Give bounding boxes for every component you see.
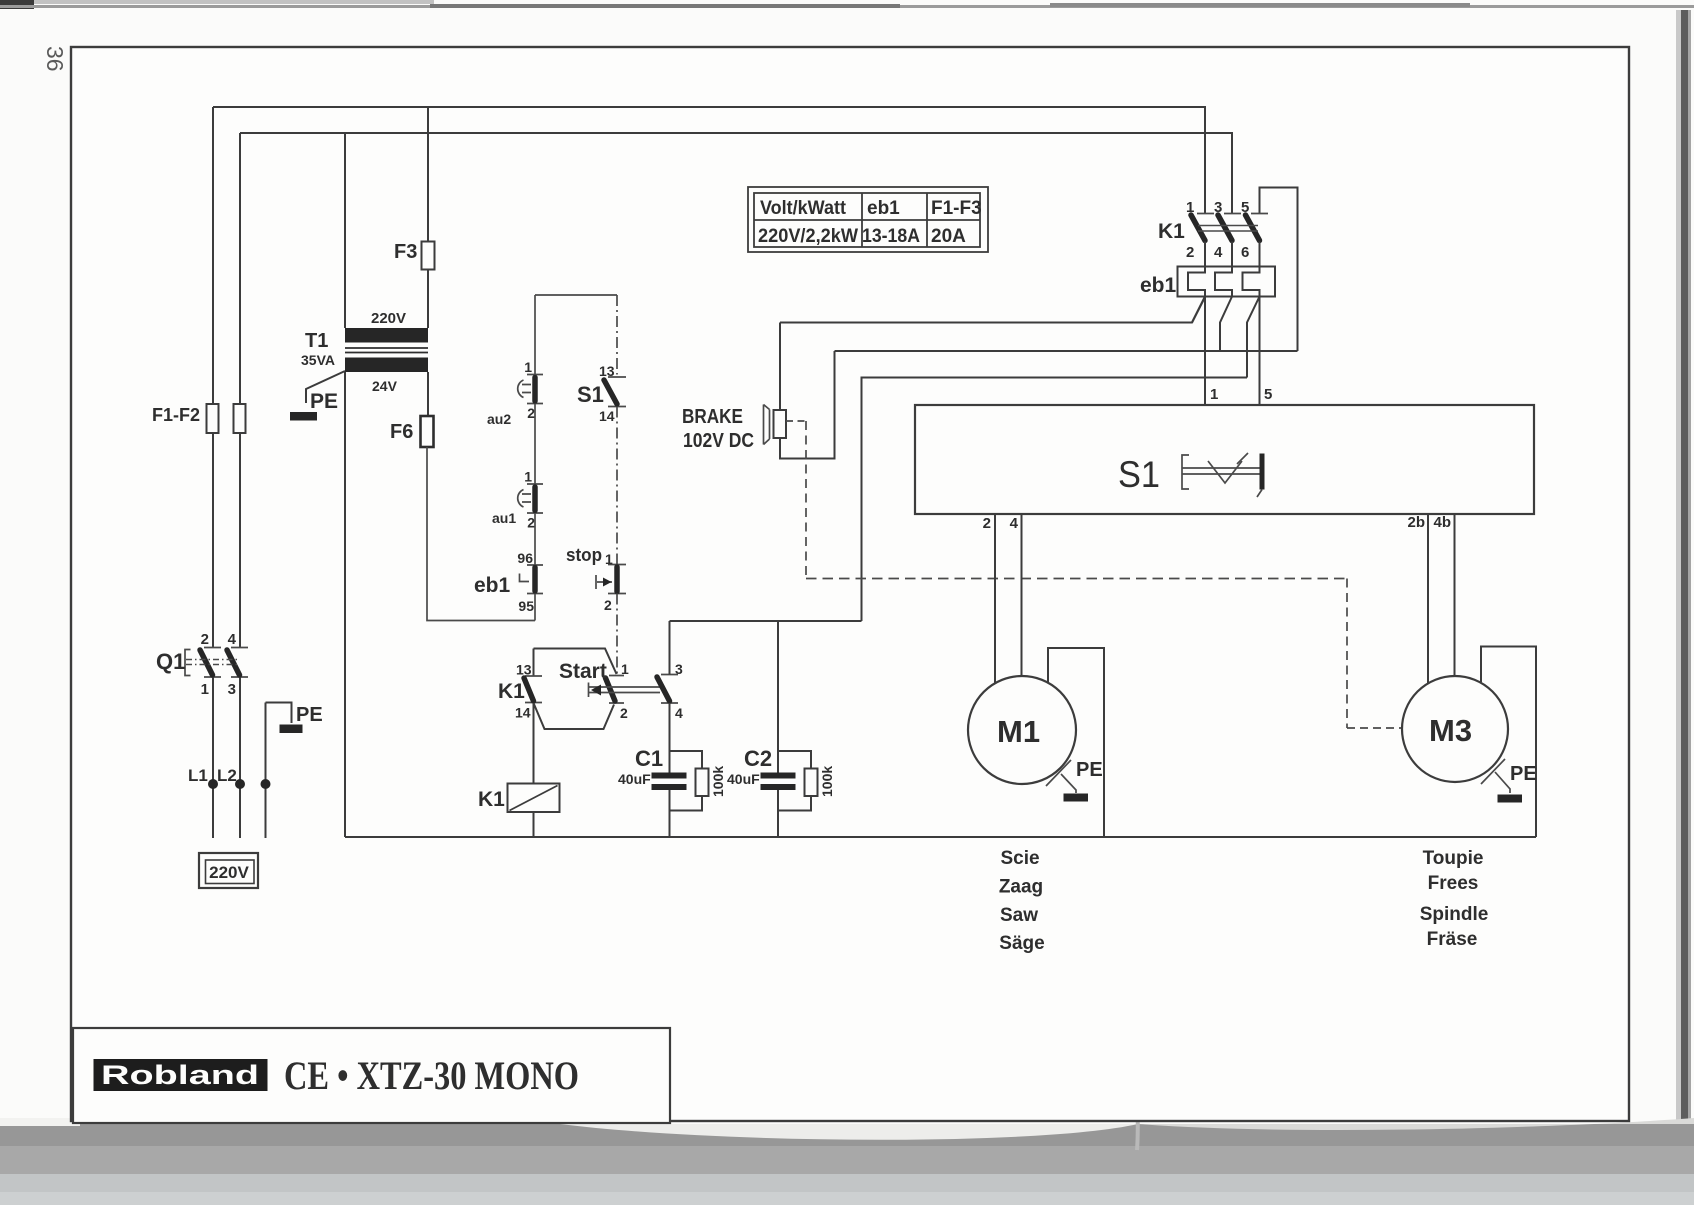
S1 bottom terminal wire 2b <box>1427 514 1429 683</box>
wire C2 bottom to rail <box>777 790 779 837</box>
node PE dot <box>261 779 271 789</box>
svg-text:4: 4 <box>228 631 237 648</box>
contactor K1 pole 5-6 <box>1246 214 1269 267</box>
svg-text:24V: 24V <box>372 378 398 394</box>
svg-text:40uF: 40uF <box>618 771 651 787</box>
S1 cam switch symbol <box>1182 453 1262 497</box>
svg-text:F6: F6 <box>390 421 413 443</box>
wire L2 vertical lower <box>239 677 241 838</box>
Robland logo <box>94 1059 268 1091</box>
svg-text:4: 4 <box>1214 244 1223 261</box>
scan right page edge shadow <box>1676 10 1691 1205</box>
breaker Q1 pole 2 contact <box>227 648 248 678</box>
dashed brake line down right <box>1346 579 1348 729</box>
ghost bleed-through marks <box>250 84 1424 1035</box>
overload relay eb1 box <box>1178 267 1276 297</box>
svg-text:F1-F2: F1-F2 <box>152 405 200 425</box>
wire F6 down and over to switch column <box>427 447 535 621</box>
wire top bus L1 (y=107) with corner down to K1 pole 1 <box>213 107 1205 214</box>
pushbutton au2 (NC) <box>518 375 543 404</box>
transformer T1 secondary winding <box>345 358 428 373</box>
capacitor C1 plates <box>652 773 687 791</box>
ground bar PE (M1) <box>1064 794 1089 802</box>
svg-text:5: 5 <box>1264 386 1272 403</box>
wire top bus L2 (y=133) with corner down to K1 pole 3 <box>240 133 1232 214</box>
dashed brake line horizontal to M3 <box>806 578 1347 580</box>
svg-text:T1: T1 <box>305 330 328 352</box>
S1 mechanical dash-dot link middle <box>616 407 618 565</box>
title block box <box>73 1028 670 1123</box>
wire secondary right to F6 <box>427 372 429 416</box>
svg-text:eb1: eb1 <box>867 198 900 219</box>
ground bar PE (M3) <box>1498 795 1523 803</box>
svg-text:220V: 220V <box>371 310 406 327</box>
wire eb1 pole3 to S1 terminal 5 <box>1259 297 1261 405</box>
brake solenoid BRAKE 102V DC <box>764 405 787 445</box>
svg-text:CE • XTZ-30 MONO: CE • XTZ-30 MONO <box>284 1053 579 1098</box>
wire F3 branch vertical <box>427 107 429 242</box>
bus eb1 pole1 to brake (y=322) <box>780 297 1205 323</box>
wire brake top to bus y322 <box>779 323 781 411</box>
svg-text:13: 13 <box>599 363 615 379</box>
svg-text:K1: K1 <box>478 788 505 811</box>
svg-text:102V DC: 102V DC <box>683 430 754 452</box>
svg-text:K1: K1 <box>1158 220 1185 243</box>
svg-text:4b: 4b <box>1433 514 1451 531</box>
dashed brake line vertical <box>805 421 807 579</box>
Q1 mechanical linkage <box>185 650 238 676</box>
fuse F3 <box>422 242 435 270</box>
svg-text:Scie: Scie <box>1000 848 1039 869</box>
bus brake loop to K1 pole2 (y=351) <box>835 350 1298 352</box>
scan fold crease <box>1137 1040 1138 1150</box>
svg-text:Säge: Säge <box>999 933 1044 954</box>
svg-text:35VA: 35VA <box>301 352 335 368</box>
svg-text:96: 96 <box>517 550 533 566</box>
svg-text:6: 6 <box>1241 244 1249 261</box>
svg-text:100k: 100k <box>710 766 726 797</box>
svg-text:2: 2 <box>201 631 209 648</box>
svg-text:2: 2 <box>604 597 612 613</box>
svg-text:L1: L1 <box>188 766 208 785</box>
fuse F2 <box>234 404 246 433</box>
wire K1 aux down to coil <box>533 703 535 784</box>
motor M3 circle <box>1402 676 1508 782</box>
svg-text:F3: F3 <box>394 241 417 263</box>
PE stub to ground <box>266 703 292 724</box>
svg-text:100k: 100k <box>819 766 835 797</box>
bottom common rail <box>345 836 1536 838</box>
wire T1 primary left feed <box>344 133 346 328</box>
node L2 dot <box>235 779 245 789</box>
scan bottom shadow band <box>0 1118 1694 1205</box>
svg-text:au2: au2 <box>487 411 511 427</box>
node L1 dot <box>208 779 218 789</box>
svg-text:eb1: eb1 <box>474 574 511 597</box>
svg-text:1: 1 <box>524 359 532 375</box>
start button plunger linkage <box>589 683 661 698</box>
ratings table <box>748 187 988 252</box>
svg-text:M1: M1 <box>997 714 1040 749</box>
fuse F1 <box>207 404 219 433</box>
S1 bottom terminal wire 4b <box>1454 514 1456 677</box>
svg-text:PE: PE <box>310 390 338 413</box>
pushbutton au1 (NC) <box>518 484 543 513</box>
svg-text:1: 1 <box>621 661 629 677</box>
wire eb1 pole3 exit diagonal <box>1247 297 1260 378</box>
svg-text:Zaag: Zaag <box>999 877 1043 898</box>
svg-text:Saw: Saw <box>1000 905 1038 926</box>
wire y621 capacitor feed bus <box>670 620 862 622</box>
svg-text:Volt/kWatt: Volt/kWatt <box>760 198 847 219</box>
svg-text:F1-F3: F1-F3 <box>931 198 982 219</box>
svg-text:13-18A: 13-18A <box>862 226 920 247</box>
svg-text:14: 14 <box>599 408 615 424</box>
wire PE feeder vertical <box>265 703 267 839</box>
svg-text:14: 14 <box>515 705 531 721</box>
svg-text:1: 1 <box>201 681 209 698</box>
svg-text:220V: 220V <box>209 863 249 882</box>
svg-text:1: 1 <box>605 551 613 567</box>
T1 secondary PE tap <box>306 371 345 403</box>
wire switch chain segment 3 <box>534 513 536 565</box>
ground bar PE (left) <box>280 725 303 734</box>
S1 mechanical dash-dot link lower <box>616 594 618 675</box>
svg-text:S1: S1 <box>577 382 604 407</box>
wire L1 vertical lower <box>212 677 214 838</box>
wire brake bottom loop <box>780 351 835 459</box>
transformer T1 core <box>345 348 428 353</box>
wire switch chain segment 1 <box>534 295 536 375</box>
switch contact 3-4 (NO, to capacitors) <box>657 675 678 704</box>
svg-text:95: 95 <box>518 598 534 614</box>
svg-text:2: 2 <box>527 405 535 421</box>
svg-text:13: 13 <box>516 662 532 678</box>
wire C2 feed from y621 <box>777 621 779 773</box>
eb1 heater element pole 3 <box>1243 267 1260 297</box>
svg-text:3: 3 <box>675 661 683 677</box>
svg-text:PE: PE <box>296 704 323 726</box>
svg-text:eb1: eb1 <box>1140 274 1177 297</box>
cam switch S1 box <box>915 405 1534 514</box>
resistor 100k (C1 bleed) loop <box>670 751 709 811</box>
K1 mechanical linkage lines <box>1198 226 1258 232</box>
resistor 100k (C2 bleed) loop <box>778 751 818 811</box>
svg-text:M3: M3 <box>1429 713 1472 748</box>
svg-text:1: 1 <box>524 469 532 485</box>
svg-text:3: 3 <box>1214 199 1222 216</box>
svg-text:2: 2 <box>983 515 991 532</box>
contactor K1 pole 1-2 <box>1191 214 1214 267</box>
svg-text:4: 4 <box>1010 515 1019 532</box>
S1 bottom terminal wire 4 <box>1021 514 1023 678</box>
contactor K1 pole 3-4 <box>1218 214 1241 267</box>
stop button contact (NC) <box>596 565 626 594</box>
svg-text:1: 1 <box>1186 199 1194 216</box>
wire 24V left rail (x=345 down to bottom rail) <box>344 372 346 837</box>
bus eb1 pole3 to capacitor feed (y=377.5) <box>862 378 1248 622</box>
wire M1 return loop <box>1048 648 1104 837</box>
svg-text:1: 1 <box>1210 386 1218 403</box>
wire M3 return loop <box>1481 647 1536 838</box>
wire L1 vertical upper <box>212 107 214 648</box>
svg-text:K1: K1 <box>498 680 525 703</box>
eb1 heater element pole 1 <box>1188 267 1205 297</box>
svg-text:3: 3 <box>228 681 236 698</box>
dashed brake line into M3 <box>1347 727 1401 729</box>
wire C1 bottom to rail <box>669 790 671 837</box>
svg-text:36: 36 <box>42 46 68 72</box>
start button enclosure hexagon <box>534 649 617 730</box>
scan top edge artifact <box>0 0 1694 9</box>
overload contact eb1 95-96 (NC) <box>520 565 544 594</box>
wire F3 to T1 primary <box>427 270 429 329</box>
svg-text:2: 2 <box>527 515 535 531</box>
svg-text:Frees: Frees <box>1428 873 1479 894</box>
wire eb1 pole2 exit diagonal <box>1220 297 1232 352</box>
fuse F6 <box>421 416 434 447</box>
transformer T1 primary winding <box>345 328 428 343</box>
svg-text:Robland: Robland <box>101 1060 259 1090</box>
wire eb1 pole1 to S1 terminal 1 <box>1192 297 1205 323</box>
svg-text:L2: L2 <box>217 766 237 785</box>
svg-text:4: 4 <box>675 705 683 721</box>
contactor aux contact K1 13-14 <box>524 676 542 703</box>
svg-text:PE: PE <box>1510 763 1537 785</box>
svg-text:C2: C2 <box>744 746 772 771</box>
wire coil K1 to bottom rail <box>533 812 535 837</box>
wire contact4 down to C1 <box>669 703 671 773</box>
svg-text:stop: stop <box>566 545 602 565</box>
svg-text:220V/2,2kW: 220V/2,2kW <box>758 226 858 247</box>
motor M1 circle <box>968 676 1076 784</box>
svg-text:PE: PE <box>1076 759 1103 781</box>
wire switch chain segment 4 <box>534 594 536 621</box>
eb1 heater element pole 2 <box>1215 267 1232 297</box>
svg-text:BRAKE: BRAKE <box>682 406 743 428</box>
svg-text:Spindle: Spindle <box>1420 904 1489 925</box>
wire switch chain segment 2 <box>534 404 536 485</box>
switch S1 contact 13-14 <box>604 377 626 407</box>
svg-text:Toupie: Toupie <box>1423 848 1484 869</box>
breaker Q1 pole 1 contact <box>200 648 221 678</box>
wire contact3 up to y621 <box>669 621 671 675</box>
svg-text:Fräse: Fräse <box>1427 929 1478 950</box>
svg-text:2: 2 <box>620 705 628 721</box>
switch assembly top link <box>535 294 617 296</box>
capacitor C2 plates <box>761 773 796 791</box>
svg-text:Q1: Q1 <box>156 649 185 674</box>
S1 mechanical dash-dot link upper <box>616 295 618 375</box>
dashed brake control stub <box>786 420 806 422</box>
PE tap M1 <box>1046 760 1076 793</box>
svg-text:40uF: 40uF <box>727 771 760 787</box>
S1 bottom terminal wire 2 <box>994 514 996 684</box>
svg-text:20A: 20A <box>931 226 966 247</box>
svg-text:2: 2 <box>1186 244 1194 261</box>
svg-text:5: 5 <box>1241 199 1249 216</box>
svg-text:au1: au1 <box>492 510 516 526</box>
svg-text:2b: 2b <box>1407 514 1425 531</box>
svg-text:C1: C1 <box>635 746 663 771</box>
start button contact 1-2 (NO) <box>606 676 625 704</box>
220V supply box <box>199 853 258 888</box>
svg-text:S1: S1 <box>1118 454 1160 495</box>
wire K1 pole5 top loop rectangle <box>1260 188 1298 352</box>
wire L2 vertical upper <box>239 133 241 648</box>
PE tap M3 <box>1481 759 1510 793</box>
relay coil K1 <box>508 784 560 813</box>
svg-text:Start: Start <box>559 660 607 683</box>
ground bar PE (at T1) <box>290 412 317 421</box>
